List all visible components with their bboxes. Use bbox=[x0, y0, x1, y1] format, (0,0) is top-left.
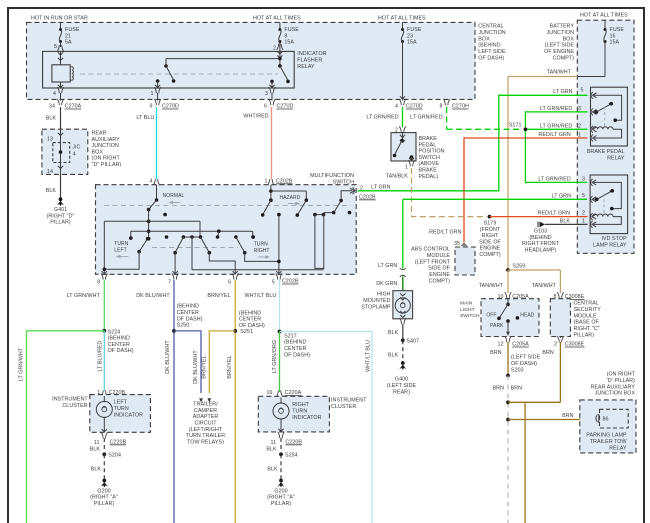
svg-text:HOT IN RUN OR STAR: HOT IN RUN OR STAR bbox=[31, 16, 88, 22]
svg-text:RED/LT GRN: RED/LT GRN bbox=[538, 210, 570, 216]
svg-text:JUNCTION: JUNCTION bbox=[92, 143, 120, 149]
svg-text:OF DASH): OF DASH) bbox=[177, 316, 203, 322]
svg-text:4: 4 bbox=[149, 178, 152, 184]
svg-text:SIDE OF: SIDE OF bbox=[479, 239, 501, 245]
svg-text:BRN/YEL: BRN/YEL bbox=[207, 293, 230, 299]
svg-text:2: 2 bbox=[273, 46, 276, 52]
svg-text:SIDE OF: SIDE OF bbox=[428, 266, 450, 272]
svg-text:BLK: BLK bbox=[90, 447, 101, 453]
svg-text:16: 16 bbox=[610, 33, 616, 39]
svg-text:TURN: TURN bbox=[254, 242, 268, 248]
svg-text:7: 7 bbox=[168, 279, 171, 285]
svg-text:LT GRN: LT GRN bbox=[371, 185, 390, 191]
svg-text:CENTER: CENTER bbox=[239, 317, 261, 323]
svg-text:ABS CONTROL: ABS CONTROL bbox=[411, 247, 450, 253]
svg-text:IVD STOP: IVD STOP bbox=[601, 236, 627, 242]
svg-text:REAR AUXILIARY: REAR AUXILIARY bbox=[590, 384, 635, 390]
svg-text:S407: S407 bbox=[406, 339, 419, 345]
svg-text:BLK: BLK bbox=[91, 466, 102, 472]
svg-text:2: 2 bbox=[360, 185, 363, 191]
svg-text:MOUNTED: MOUNTED bbox=[363, 298, 390, 304]
svg-text:1: 1 bbox=[582, 218, 585, 224]
svg-text:REAR: REAR bbox=[92, 131, 107, 137]
svg-text:HIGH: HIGH bbox=[377, 292, 391, 298]
svg-text:2: 2 bbox=[578, 124, 581, 130]
svg-text:HAZARD: HAZARD bbox=[280, 195, 301, 201]
svg-text:LT GRN: LT GRN bbox=[553, 89, 572, 95]
svg-text:LEFT: LEFT bbox=[114, 400, 128, 406]
svg-text:BRAKE: BRAKE bbox=[419, 168, 438, 174]
svg-text:TRAILER TOW: TRAILER TOW bbox=[590, 439, 628, 445]
svg-text:TURN: TURN bbox=[114, 241, 128, 247]
svg-text:LT GRN: LT GRN bbox=[552, 193, 571, 199]
svg-text:DK BLU/WHT: DK BLU/WHT bbox=[136, 293, 170, 299]
svg-text:5: 5 bbox=[54, 44, 57, 50]
svg-text:(BEHIND: (BEHIND bbox=[529, 235, 551, 241]
svg-text:(BEHIND: (BEHIND bbox=[284, 340, 306, 346]
svg-text:34: 34 bbox=[49, 104, 55, 110]
svg-text:JUNCTION: JUNCTION bbox=[478, 30, 506, 36]
svg-text:OF DASH): OF DASH) bbox=[478, 56, 504, 62]
svg-text:CENTRAL: CENTRAL bbox=[574, 301, 599, 307]
svg-text:CLUSTER: CLUSTER bbox=[62, 403, 87, 409]
svg-text:PEDAL: PEDAL bbox=[419, 142, 437, 148]
svg-text:TURN: TURN bbox=[292, 408, 307, 414]
svg-text:BLK: BLK bbox=[388, 353, 399, 359]
svg-text:CENTRAL: CENTRAL bbox=[478, 24, 503, 30]
svg-text:CAMPER: CAMPER bbox=[194, 408, 217, 414]
svg-text:S171: S171 bbox=[509, 123, 522, 129]
svg-text:COMPT): COMPT) bbox=[553, 56, 575, 62]
svg-text:SWITCH: SWITCH bbox=[419, 155, 440, 161]
svg-text:CENTER: CENTER bbox=[177, 310, 199, 316]
svg-text:FUSE: FUSE bbox=[610, 27, 625, 33]
svg-text:G401: G401 bbox=[54, 207, 67, 213]
svg-text:12: 12 bbox=[497, 342, 503, 348]
svg-text:J/C: J/C bbox=[72, 145, 80, 151]
svg-text:BRN/YEL: BRN/YEL bbox=[227, 355, 233, 378]
svg-text:PILLAR): PILLAR) bbox=[574, 333, 595, 339]
svg-text:TURN: TURN bbox=[114, 406, 129, 412]
svg-text:COMPT): COMPT) bbox=[429, 279, 451, 285]
svg-text:RELAY: RELAY bbox=[609, 445, 627, 451]
svg-text:AUXILIARY: AUXILIARY bbox=[92, 137, 121, 143]
svg-text:(LEFT/RIGHT: (LEFT/RIGHT bbox=[189, 427, 223, 433]
svg-text:RED/LT GRN: RED/LT GRN bbox=[538, 132, 570, 138]
svg-text:TURN TRAILER: TURN TRAILER bbox=[186, 433, 225, 439]
svg-text:HEADLAMP): HEADLAMP) bbox=[525, 247, 557, 253]
svg-text:OF ENGINE: OF ENGINE bbox=[544, 49, 574, 55]
svg-text:6: 6 bbox=[264, 104, 267, 110]
svg-text:LT GRN/RED: LT GRN/RED bbox=[538, 176, 570, 182]
svg-text:14: 14 bbox=[47, 169, 53, 175]
svg-text:PEDAL): PEDAL) bbox=[419, 174, 439, 180]
svg-text:BRN: BRN bbox=[562, 413, 574, 419]
svg-text:(BEHIND: (BEHIND bbox=[108, 336, 130, 342]
svg-text:2: 2 bbox=[582, 211, 585, 217]
svg-text:8: 8 bbox=[284, 33, 287, 39]
svg-text:86: 86 bbox=[603, 417, 609, 423]
svg-text:11: 11 bbox=[94, 440, 100, 446]
svg-text:FUSE: FUSE bbox=[284, 27, 299, 33]
svg-text:13: 13 bbox=[47, 137, 53, 143]
svg-text:15A: 15A bbox=[610, 40, 620, 46]
svg-text:S250: S250 bbox=[177, 323, 190, 329]
svg-text:JUNCTION: JUNCTION bbox=[547, 30, 575, 36]
svg-text:TAN/WHT: TAN/WHT bbox=[547, 70, 572, 76]
svg-text:FLASHER: FLASHER bbox=[297, 58, 322, 64]
svg-text:SWITCH: SWITCH bbox=[460, 313, 480, 319]
svg-text:BRN: BRN bbox=[511, 386, 523, 392]
svg-text:RIGHT: RIGHT bbox=[482, 233, 500, 239]
svg-text:MULTIFUNCTION: MULTIFUNCTION bbox=[310, 173, 354, 179]
svg-text:TAN/WHT: TAN/WHT bbox=[532, 283, 557, 289]
svg-text:(RIGHT "A": (RIGHT "A" bbox=[267, 495, 295, 501]
svg-text:LT BLU/RED: LT BLU/RED bbox=[97, 340, 103, 371]
svg-text:5: 5 bbox=[272, 279, 275, 285]
svg-text:HOT AT ALL TIMES: HOT AT ALL TIMES bbox=[580, 13, 628, 19]
svg-text:LT GRN/ORG: LT GRN/ORG bbox=[272, 340, 278, 373]
svg-text:BRN: BRN bbox=[490, 350, 502, 356]
svg-text:RIGHT: RIGHT bbox=[254, 248, 270, 254]
svg-text:1: 1 bbox=[405, 164, 408, 170]
svg-text:23: 23 bbox=[407, 33, 413, 39]
svg-text:BOX: BOX bbox=[478, 36, 490, 42]
svg-text:S251: S251 bbox=[240, 329, 253, 335]
svg-text:BRN: BRN bbox=[493, 386, 505, 392]
svg-text:CIRCUIT: CIRCUIT bbox=[194, 421, 217, 427]
svg-text:MODULE: MODULE bbox=[427, 253, 451, 259]
svg-text:INSTRUMENT: INSTRUMENT bbox=[52, 397, 88, 403]
svg-text:LEFT: LEFT bbox=[114, 248, 126, 254]
svg-text:WHT/LT BLU: WHT/LT BLU bbox=[245, 293, 277, 299]
svg-text:(ON RIGHT: (ON RIGHT bbox=[92, 156, 121, 162]
svg-text:LT GRN/WHT: LT GRN/WHT bbox=[19, 347, 25, 381]
svg-text:4: 4 bbox=[395, 104, 398, 110]
svg-text:POSITION: POSITION bbox=[419, 149, 445, 155]
svg-text:TRAILER/: TRAILER/ bbox=[193, 402, 218, 408]
svg-text:3: 3 bbox=[578, 106, 581, 112]
svg-text:(ON RIGHT: (ON RIGHT bbox=[607, 372, 636, 378]
svg-text:SECURITY: SECURITY bbox=[574, 307, 602, 313]
svg-text:BRAKE PEDAL: BRAKE PEDAL bbox=[587, 149, 625, 155]
svg-text:HOT AT ALL TIMES: HOT AT ALL TIMES bbox=[378, 16, 426, 22]
svg-text:S204: S204 bbox=[108, 453, 121, 459]
svg-text:(BASE OF: (BASE OF bbox=[574, 320, 600, 326]
svg-text:8: 8 bbox=[97, 279, 100, 285]
svg-text:FUSE: FUSE bbox=[407, 27, 422, 33]
svg-text:PARKING LAMP: PARKING LAMP bbox=[586, 433, 627, 439]
svg-text:BLK: BLK bbox=[46, 116, 57, 122]
svg-text:16: 16 bbox=[266, 390, 272, 396]
svg-text:LT GRN/RED: LT GRN/RED bbox=[540, 106, 572, 112]
svg-text:LIGHT: LIGHT bbox=[460, 307, 475, 313]
svg-text:BRN/YEL: BRN/YEL bbox=[201, 355, 207, 378]
svg-text:S259: S259 bbox=[513, 264, 526, 270]
svg-text:3: 3 bbox=[265, 91, 268, 97]
svg-text:LT GRN/RED: LT GRN/RED bbox=[540, 123, 572, 129]
svg-text:"D" PILLAR): "D" PILLAR) bbox=[92, 162, 122, 168]
svg-text:STOPLAMP: STOPLAMP bbox=[361, 304, 391, 310]
svg-text:INDICATOR: INDICATOR bbox=[297, 51, 326, 57]
svg-text:4: 4 bbox=[73, 152, 76, 158]
svg-text:(FRONT: (FRONT bbox=[480, 227, 501, 233]
svg-text:WHT/LT BLU: WHT/LT BLU bbox=[365, 340, 371, 372]
svg-text:S203: S203 bbox=[511, 367, 524, 373]
svg-text:LT GRN: LT GRN bbox=[378, 263, 397, 269]
svg-text:8: 8 bbox=[439, 104, 442, 110]
svg-text:DK BLU/WHT: DK BLU/WHT bbox=[193, 350, 199, 384]
svg-text:RELAY: RELAY bbox=[297, 64, 315, 70]
svg-text:LT BLU: LT BLU bbox=[136, 115, 154, 121]
svg-text:BOX: BOX bbox=[92, 149, 104, 155]
svg-text:BRAKE: BRAKE bbox=[419, 136, 438, 142]
svg-text:BLK: BLK bbox=[388, 330, 399, 336]
svg-text:TOW RELAYS): TOW RELAYS) bbox=[187, 439, 224, 445]
svg-text:LT GRN/RED: LT GRN/RED bbox=[410, 114, 442, 120]
svg-text:35: 35 bbox=[454, 241, 460, 247]
svg-text:HEAD: HEAD bbox=[520, 313, 534, 319]
svg-text:WHT/RED: WHT/RED bbox=[243, 114, 268, 120]
svg-text:LT GRN/RED: LT GRN/RED bbox=[366, 114, 398, 120]
svg-text:1: 1 bbox=[150, 91, 153, 97]
svg-text:(LEFT SIDE: (LEFT SIDE bbox=[511, 355, 541, 361]
svg-text:ENGINE: ENGINE bbox=[480, 246, 501, 252]
svg-text:2: 2 bbox=[554, 342, 557, 348]
svg-text:JUNCTION BOX: JUNCTION BOX bbox=[595, 391, 636, 397]
svg-text:21: 21 bbox=[65, 33, 71, 39]
svg-text:PILLAR): PILLAR) bbox=[271, 501, 292, 507]
svg-text:S179: S179 bbox=[484, 221, 497, 227]
svg-text:G200: G200 bbox=[274, 488, 287, 494]
svg-text:MAIN: MAIN bbox=[460, 301, 473, 307]
svg-text:REAR): REAR) bbox=[393, 389, 410, 395]
svg-text:LAMP RELAY: LAMP RELAY bbox=[593, 242, 627, 248]
svg-text:ADAPTER: ADAPTER bbox=[193, 414, 219, 420]
svg-text:15A: 15A bbox=[284, 40, 294, 46]
svg-text:9: 9 bbox=[149, 104, 152, 110]
svg-text:3: 3 bbox=[582, 177, 585, 183]
svg-text:RIGHT "C": RIGHT "C" bbox=[574, 326, 600, 332]
svg-text:5: 5 bbox=[582, 193, 585, 199]
svg-text:RED/LT GRN: RED/LT GRN bbox=[429, 229, 461, 235]
svg-text:4: 4 bbox=[53, 91, 56, 97]
svg-text:(BEHIND: (BEHIND bbox=[478, 43, 500, 49]
svg-text:MODULE: MODULE bbox=[574, 313, 598, 319]
svg-text:15A: 15A bbox=[407, 40, 417, 46]
svg-text:5A: 5A bbox=[65, 40, 72, 46]
svg-text:G400: G400 bbox=[395, 377, 408, 383]
svg-text:BRN: BRN bbox=[542, 350, 554, 356]
svg-text:ENGINE: ENGINE bbox=[429, 272, 450, 278]
svg-text:(LEFT SIDE: (LEFT SIDE bbox=[387, 383, 417, 389]
svg-text:NORMAL: NORMAL bbox=[163, 193, 185, 199]
svg-text:G103: G103 bbox=[534, 229, 547, 235]
svg-text:INSTRUMENT: INSTRUMENT bbox=[331, 398, 367, 404]
svg-text:S224: S224 bbox=[108, 329, 121, 335]
svg-text:11: 11 bbox=[271, 440, 277, 446]
svg-text:S217: S217 bbox=[284, 333, 297, 339]
svg-text:BLK: BLK bbox=[560, 218, 571, 224]
svg-text:OF DASH): OF DASH) bbox=[239, 323, 265, 329]
svg-text:TAN/WHT: TAN/WHT bbox=[479, 283, 504, 289]
svg-text:TAN/BLK: TAN/BLK bbox=[386, 174, 409, 180]
svg-text:LEFT SIDE: LEFT SIDE bbox=[478, 49, 506, 55]
svg-text:BOX: BOX bbox=[563, 36, 575, 42]
svg-text:OF DASH): OF DASH) bbox=[284, 352, 310, 358]
svg-text:COMPT): COMPT) bbox=[479, 252, 501, 258]
svg-text:1: 1 bbox=[264, 178, 267, 184]
svg-text:HOT AT ALL TIMES: HOT AT ALL TIMES bbox=[253, 16, 301, 22]
svg-text:PILLAR): PILLAR) bbox=[50, 220, 71, 226]
svg-text:5: 5 bbox=[580, 88, 583, 94]
svg-text:(ABOVE: (ABOVE bbox=[419, 161, 440, 167]
svg-text:CENTER: CENTER bbox=[284, 346, 306, 352]
svg-text:(BEHIND: (BEHIND bbox=[177, 304, 199, 310]
svg-text:CENTER: CENTER bbox=[108, 342, 130, 348]
svg-text:(RIGHT "A": (RIGHT "A" bbox=[90, 495, 118, 501]
svg-text:BLK: BLK bbox=[46, 188, 57, 194]
svg-text:OFF: OFF bbox=[486, 313, 496, 319]
svg-text:RELAY: RELAY bbox=[607, 155, 625, 161]
svg-text:RIGHT: RIGHT bbox=[292, 402, 310, 408]
svg-text:INDICATOR: INDICATOR bbox=[114, 413, 143, 419]
svg-text:OF DASH): OF DASH) bbox=[108, 348, 134, 354]
svg-text:RIGHT FRONT: RIGHT FRONT bbox=[522, 241, 560, 247]
svg-text:PILLAR): PILLAR) bbox=[94, 501, 115, 507]
svg-text:CLUSTER: CLUSTER bbox=[331, 404, 356, 410]
svg-text:6: 6 bbox=[228, 279, 231, 285]
svg-text:BATTERY: BATTERY bbox=[549, 24, 574, 30]
svg-text:(BEHIND: (BEHIND bbox=[239, 310, 261, 316]
svg-text:FUSE: FUSE bbox=[65, 27, 80, 33]
svg-text:PARK: PARK bbox=[490, 323, 504, 329]
svg-text:(LEFT FRONT: (LEFT FRONT bbox=[415, 259, 451, 265]
svg-text:BLK: BLK bbox=[266, 447, 277, 453]
svg-text:G200: G200 bbox=[97, 488, 110, 494]
svg-text:LT GRN/WHT: LT GRN/WHT bbox=[67, 293, 101, 299]
svg-text:(LEFT SIDE: (LEFT SIDE bbox=[545, 43, 575, 49]
svg-text:INDICATOR: INDICATOR bbox=[292, 415, 321, 421]
svg-text:DK BLU/WHT: DK BLU/WHT bbox=[165, 340, 171, 374]
svg-text:DK GRN: DK GRN bbox=[376, 281, 397, 287]
svg-text:'D' PILLAR): 'D' PILLAR) bbox=[607, 378, 635, 384]
svg-text:BLK: BLK bbox=[267, 466, 278, 472]
svg-text:(RIGHT "D": (RIGHT "D" bbox=[47, 213, 75, 219]
svg-text:OF DASH): OF DASH) bbox=[511, 361, 537, 367]
svg-text:S254: S254 bbox=[285, 453, 298, 459]
